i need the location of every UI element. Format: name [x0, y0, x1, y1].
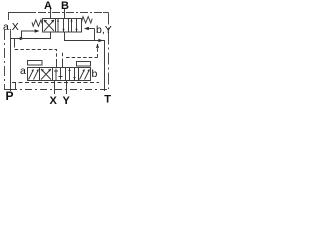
main valve left square crossed arrows — [44, 20, 54, 31]
svg-text:a,X: a,X — [3, 21, 19, 33]
main valve right square flow lines — [72, 19, 77, 32]
port Y stub — [66, 81, 68, 95]
wire: pilot supply branch (solid stub) — [14, 39, 16, 45]
drain dashed line above bottom border — [12, 82, 99, 84]
svg-text:P: P — [6, 89, 14, 103]
svg-text:B: B — [61, 0, 69, 12]
enclosure border left edge (dash-dot) — [4, 30, 6, 85]
svg-text:Y: Y — [63, 95, 71, 106]
svg-text:T: T — [104, 94, 111, 106]
port X stub — [54, 81, 56, 95]
pilot valve P stub — [56, 61, 58, 67]
pilot valve V2 body: three squares — [40, 68, 79, 81]
svg-text:b: b — [92, 68, 98, 80]
svg-text:X: X — [50, 95, 58, 106]
pilot drain dashed line — [63, 44, 98, 62]
main valve left spring — [32, 20, 43, 27]
enclosure border top-right corner — [103, 12, 109, 14]
pilot drain arrow into T wire — [96, 44, 99, 48]
port B stub — [64, 8, 66, 18]
solenoid a top plate — [28, 61, 43, 66]
port A stub — [50, 8, 52, 18]
T wire flow arrow — [98, 39, 103, 42]
drain stub at P line — [15, 83, 17, 90]
solenoid b top plate — [77, 62, 91, 67]
svg-text:b,Y: b,Y — [96, 24, 112, 36]
enclosure border bottom-left corner — [5, 85, 11, 90]
pilot valve right square flow lines — [70, 68, 75, 80]
main valve left pilot bracket — [22, 31, 27, 39]
pilot valve middle square closed-center marks — [56, 68, 61, 80]
main valve left pilot arrow — [26, 30, 35, 32]
left border piece under label — [10, 31, 12, 39]
main valve U1 body: three squares — [43, 19, 82, 33]
main valve right pilot arrow — [88, 28, 95, 30]
main valve right pilot bracket — [94, 29, 96, 41]
main valve middle square flow lines — [58, 19, 64, 32]
main valve right spring — [82, 17, 93, 23]
solenoid b box — [79, 68, 91, 81]
svg-text:A: A — [44, 0, 52, 12]
pilot drain stub — [62, 62, 64, 67]
svg-text:a: a — [20, 65, 26, 77]
enclosure border right edge (dash-dot) — [108, 13, 110, 90]
enclosure border top-left corner — [9, 13, 37, 21]
wire: P line from main valve to port P — [11, 32, 51, 91]
pilot valve left square crossed arrows — [41, 69, 51, 80]
wire: T line from main valve to port T — [65, 32, 105, 91]
enclosure border top edge (dash-dot) — [38, 12, 104, 14]
P wire flow arrow — [20, 37, 25, 40]
solenoid a box — [28, 68, 40, 81]
enclosure border bottom edge (dash-dot) — [10, 89, 109, 91]
pilot supply dashed line to pilot valve — [15, 44, 57, 62]
